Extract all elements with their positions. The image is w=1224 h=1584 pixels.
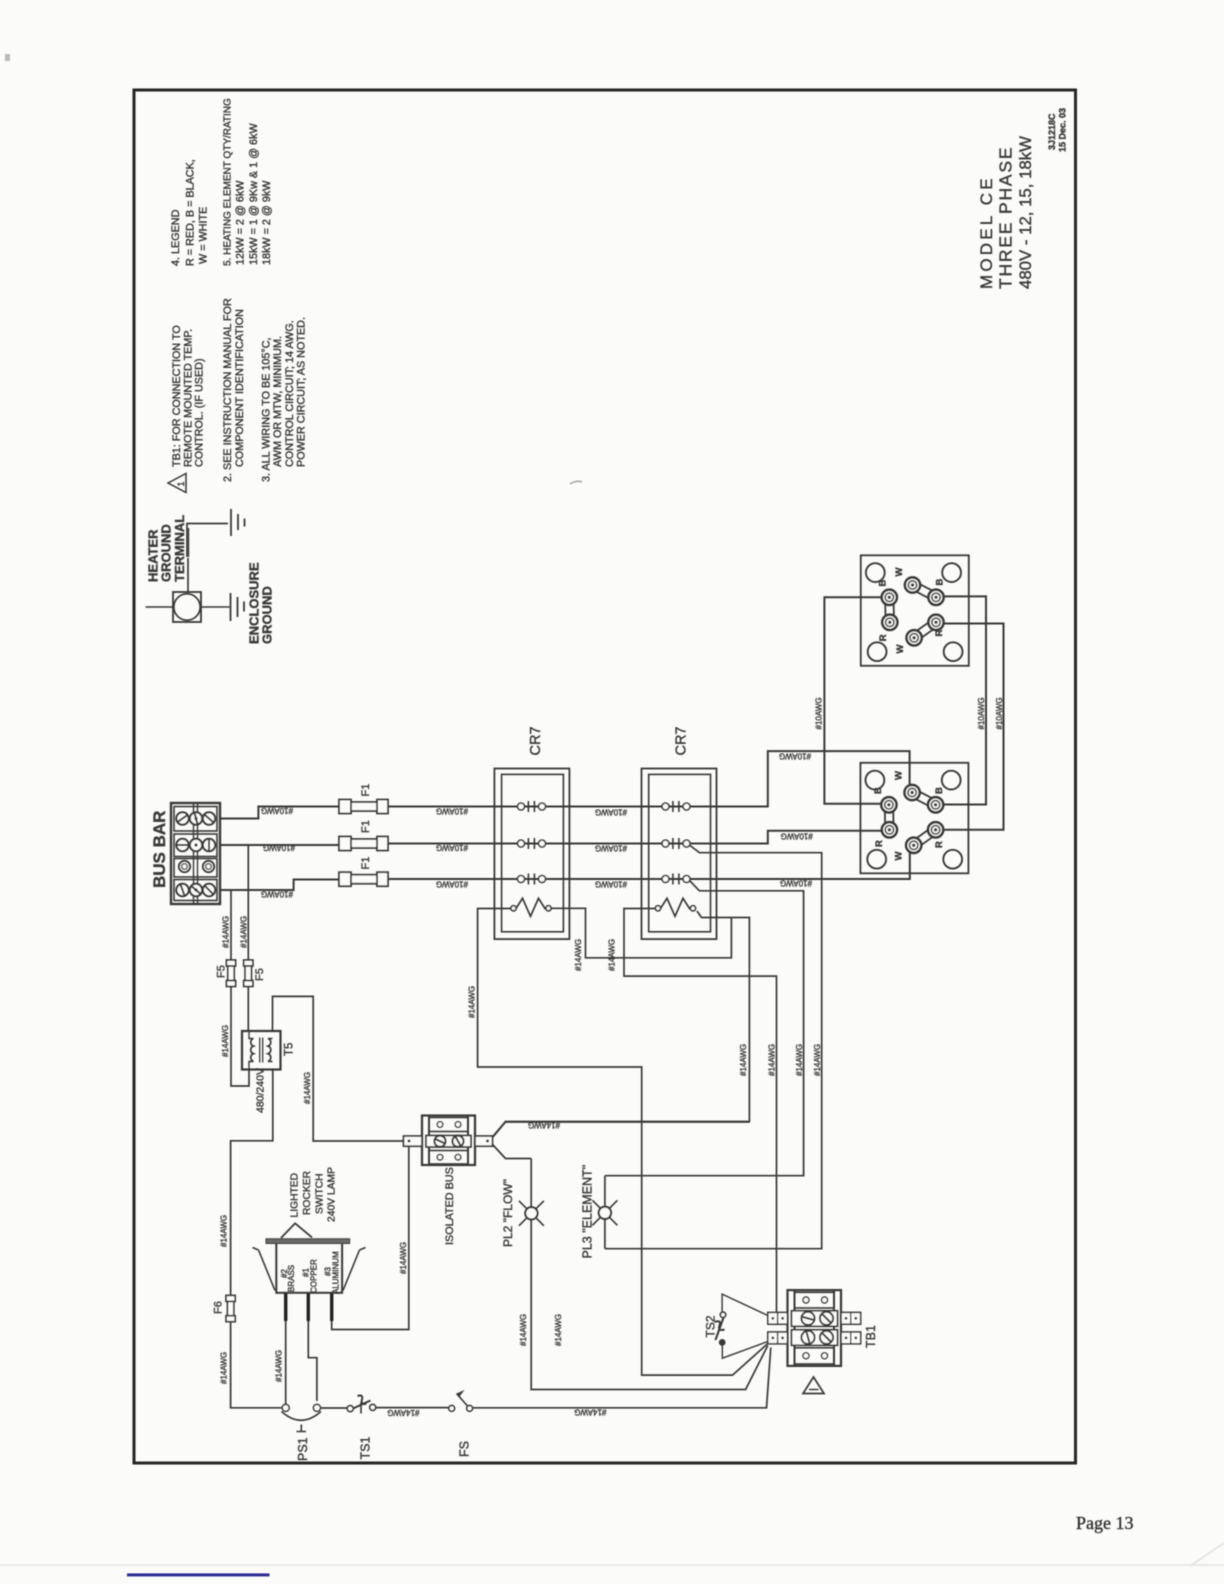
svg-text:#10AWG: #10AWG [779, 752, 811, 761]
svg-text:R: R [874, 840, 885, 847]
svg-text:ISOLATED BUS: ISOLATED BUS [444, 1167, 456, 1245]
svg-text:TERMINAL: TERMINAL [172, 515, 187, 582]
svg-text:#10AWG: #10AWG [261, 890, 293, 899]
svg-text:COPPER: COPPER [310, 1259, 319, 1293]
svg-text:CONTROL. (IF USED): CONTROL. (IF USED) [194, 358, 206, 467]
svg-text:F1: F1 [360, 857, 372, 870]
svg-text:#10AWG: #10AWG [781, 832, 813, 841]
svg-text:W = WHITE: W = WHITE [198, 207, 210, 264]
svg-text:#14AWG: #14AWG [399, 1242, 408, 1274]
svg-text:W: W [894, 852, 905, 861]
svg-text:#14AWG: #14AWG [240, 916, 249, 948]
svg-text:R: R [878, 634, 889, 641]
svg-text:B: B [877, 580, 888, 587]
svg-text:TS2: TS2 [704, 1315, 718, 1337]
svg-text:BUS BAR: BUS BAR [150, 811, 169, 888]
svg-text:PL2 "FLOW": PL2 "FLOW" [501, 1179, 515, 1247]
svg-text:F1: F1 [360, 820, 372, 833]
svg-text:#14AWG: #14AWG [222, 916, 231, 948]
svg-text:B: B [934, 787, 945, 794]
svg-text:2. SEE INSTRUCTION MANUAL FO: 2. SEE INSTRUCTION MANUAL FOR [222, 298, 234, 482]
svg-text:#14AWG: #14AWG [220, 1352, 229, 1384]
svg-text:F1: F1 [360, 784, 372, 797]
svg-text:#14AWG: #14AWG [528, 1121, 560, 1130]
svg-text:TB1: FOR CONNECTION TO: TB1: FOR CONNECTION TO [171, 325, 183, 467]
svg-text:#10AWG: #10AWG [436, 843, 468, 852]
svg-text:#14AWG: #14AWG [303, 1072, 312, 1104]
svg-text:POWER CIRCUIT; AS NOTED.: POWER CIRCUIT; AS NOTED. [296, 317, 308, 467]
svg-text:15 Dec. 03: 15 Dec. 03 [1058, 108, 1068, 152]
svg-text:#10AWG: #10AWG [977, 697, 986, 729]
svg-text:MODEL CE: MODEL CE [977, 175, 996, 289]
svg-text:W: W [895, 645, 906, 654]
svg-text:#14AWG: #14AWG [608, 939, 617, 971]
svg-text:#10AWG: #10AWG [595, 844, 627, 853]
svg-text:R: R [934, 630, 945, 637]
svg-text:#10AWG: #10AWG [436, 880, 468, 889]
svg-text:480V - 12, 15, 18kW: 480V - 12, 15, 18kW [1016, 136, 1035, 289]
svg-text:#10AWG: #10AWG [595, 808, 627, 817]
svg-text:15kW = 1 @ 9Kw & 1 @ 6kW: 15kW = 1 @ 9Kw & 1 @ 6kW [248, 123, 260, 265]
svg-text:F5: F5 [216, 965, 228, 978]
svg-text:#14AWG: #14AWG [221, 1025, 230, 1057]
svg-text:B: B [935, 579, 946, 586]
svg-text:#14AWG: #14AWG [519, 1314, 528, 1346]
svg-text:F6: F6 [213, 1301, 225, 1314]
svg-text:12kW = 2 @ 6kW: 12kW = 2 @ 6kW [235, 180, 247, 265]
svg-text:COMPONENT IDENTIFICATION: COMPONENT IDENTIFICATION [234, 309, 246, 467]
svg-text:#14AWG: #14AWG [275, 1350, 284, 1382]
svg-text:LIGHTED: LIGHTED [290, 1173, 301, 1218]
svg-text:SWITCH: SWITCH [314, 1173, 325, 1214]
svg-text:#10AWG: #10AWG [780, 879, 812, 888]
svg-text:CONTROL CIRCUIT; 14 AWG.: CONTROL CIRCUIT; 14 AWG. [284, 320, 296, 467]
svg-text:3. ALL WIRING TO BE 105°C,: 3. ALL WIRING TO BE 105°C, [261, 337, 273, 482]
svg-text:ROCKER: ROCKER [302, 1171, 313, 1215]
svg-text:4. LEGEND: 4. LEGEND [170, 209, 182, 266]
svg-text:R = RED, B = BLACK,: R = RED, B = BLACK, [185, 159, 197, 266]
svg-text:PS1: PS1 [296, 1437, 310, 1461]
svg-text:480/240V: 480/240V [255, 1068, 267, 1113]
svg-text:W: W [894, 771, 905, 780]
svg-text:#14AWG: #14AWG [574, 939, 583, 971]
svg-text:#10AWG: #10AWG [595, 880, 627, 889]
svg-text:#10AWG: #10AWG [263, 843, 295, 852]
svg-text:GROUND: GROUND [260, 586, 275, 644]
svg-text:W: W [894, 568, 905, 577]
svg-text:B: B [873, 787, 884, 794]
svg-text:#10AWG: #10AWG [995, 697, 1004, 729]
svg-text:Page 13: Page 13 [1076, 1513, 1134, 1533]
svg-text:3J1218C: 3J1218C [1047, 113, 1057, 150]
svg-text:THREE PHASE: THREE PHASE [996, 146, 1016, 289]
svg-text:#10AWG: #10AWG [436, 807, 468, 816]
svg-text:ALUMINUM: ALUMINUM [332, 1251, 341, 1294]
svg-text:PL3 "ELEMENT": PL3 "ELEMENT" [581, 1165, 595, 1259]
svg-text:#14AWG: #14AWG [468, 986, 477, 1018]
svg-text:5. HEATING ELEMENT QTY/RATING: 5. HEATING ELEMENT QTY/RATING [223, 98, 234, 266]
svg-text:18kW = 2 @ 9kW: 18kW = 2 @ 9kW [261, 180, 273, 265]
svg-text:BRASS: BRASS [287, 1265, 296, 1292]
svg-text:CR7: CR7 [674, 726, 690, 755]
svg-text:#14AWG: #14AWG [387, 1408, 419, 1417]
svg-text:T5: T5 [284, 1043, 296, 1056]
svg-text:AWM OR MTW, MINIMUM.: AWM OR MTW, MINIMUM. [272, 336, 284, 467]
svg-text:#14AWG: #14AWG [554, 1314, 563, 1346]
svg-text:TS1: TS1 [359, 1437, 373, 1460]
svg-text:F5: F5 [254, 968, 266, 981]
svg-text:#14AWG: #14AWG [220, 1215, 229, 1247]
svg-text:FS: FS [458, 1441, 472, 1457]
svg-text:TB1: TB1 [864, 1325, 878, 1348]
svg-text:1: 1 [176, 481, 186, 486]
svg-text:CR7: CR7 [528, 726, 544, 755]
svg-text:#14AWG: #14AWG [739, 1044, 748, 1076]
svg-text:#14AWG: #14AWG [574, 1408, 606, 1417]
svg-text:#10AWG: #10AWG [261, 806, 293, 815]
svg-text:#14AWG: #14AWG [767, 1044, 776, 1076]
svg-text:#10AWG: #10AWG [815, 697, 824, 729]
svg-text:240V LAMP: 240V LAMP [327, 1167, 338, 1222]
svg-text:#14AWG: #14AWG [813, 1044, 822, 1076]
svg-text:#14AWG: #14AWG [795, 1044, 804, 1076]
svg-text:R: R [934, 841, 945, 848]
